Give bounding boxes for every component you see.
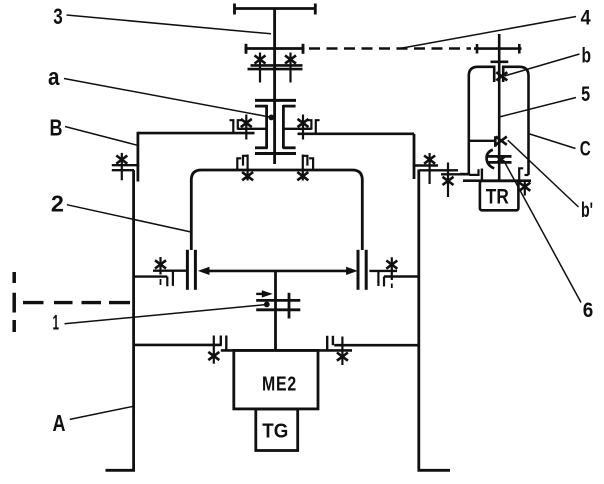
carrier clutch right hook 1 (309, 158, 313, 170)
axis dashed horizontal (23, 301, 130, 304)
svg-text:5: 5 (581, 83, 590, 106)
gear clutch asterisk right (285, 55, 296, 63)
right carrier clutch line A (369, 270, 397, 272)
motor mount right stem (341, 337, 343, 366)
shaft b (498, 34, 501, 181)
left wall bearing stem (121, 153, 123, 180)
carrier clutch right hook 2 (303, 156, 307, 166)
carrier clutch left hook 1 (237, 158, 241, 170)
TR mount left edge stub (460, 173, 469, 175)
differential side gear left (265, 105, 268, 149)
right carrier clutch stub 2 (377, 271, 379, 286)
gear mesh lower line (248, 68, 303, 71)
central shaft a (upper segment) (273, 9, 276, 165)
axis dashed vertical (12, 272, 16, 332)
left wall bearing line 2 (112, 169, 134, 171)
planet axle left arrowhead (198, 267, 210, 275)
shaft 4 bar right tick (302, 44, 305, 54)
carrier clutch asterisk right (297, 172, 308, 180)
left bearing stem (245, 115, 247, 140)
left carrier clutch line B (134, 275, 168, 277)
gear clutch asterisk left (255, 55, 266, 63)
TR housing C right half (503, 67, 528, 175)
carrier clutch left stem (247, 155, 249, 181)
motor mount line right upper (334, 344, 419, 347)
right carrier clutch stub 1 (383, 277, 385, 287)
svg-text:1: 1 (53, 312, 60, 335)
right bearing hook 2 (316, 120, 320, 134)
left planet roller bar outer (186, 250, 189, 290)
coupling 1 upper plate (256, 299, 300, 302)
svg-text:TG: TG (262, 421, 288, 443)
top bar left tick (233, 4, 236, 15)
left bearing line upper (238, 128, 266, 130)
bearing line to TR housing (441, 173, 470, 175)
svg-text:2: 2 (51, 191, 64, 217)
leader line C (529, 134, 576, 149)
TR input gear bar lower (488, 161, 512, 164)
leader line 6 (504, 161, 581, 303)
motor mount left stem (213, 336, 215, 364)
carrier clutch asterisk left (242, 172, 253, 180)
left bearing asterisk (241, 119, 252, 127)
right planet roller bar inner (357, 250, 360, 290)
TR input gear claw (487, 150, 495, 169)
motor mount asterisk right (337, 353, 348, 361)
leader line A (70, 406, 134, 419)
motor mount line lower (221, 349, 352, 352)
differential top bar (255, 99, 296, 102)
gear clutch stem right (289, 53, 291, 83)
TR mount left hook (469, 169, 478, 175)
planet axle line (207, 270, 348, 273)
right carrier clutch stem (391, 257, 393, 280)
differential upper stub left (255, 105, 268, 108)
shaft 4 bar left tick (245, 44, 248, 54)
carrier clutch right stem (302, 155, 304, 181)
motor ME2 box (234, 350, 318, 409)
leader line 5 (499, 98, 576, 118)
motor mount right hook 1 (326, 336, 328, 351)
transmission TR box (480, 181, 519, 210)
leader line 3 (67, 15, 272, 34)
leader line a (64, 79, 271, 118)
left bearing line to wall (138, 132, 255, 135)
right carrier clutch line B (384, 275, 419, 277)
right wall lower segment (417, 170, 420, 471)
svg-text:b': b' (581, 199, 593, 222)
right carrier clutch asterisk (386, 261, 397, 269)
left carrier clutch stem dash (160, 279, 162, 285)
differential lower stub left (255, 146, 268, 149)
coupling 1 lower plate (256, 308, 300, 311)
clutch b' feed line (469, 140, 495, 142)
leader line 1 (65, 305, 267, 324)
shaft b bar left tick (476, 44, 479, 54)
right wall bearing asterisk 1 (424, 156, 435, 164)
left wall lower segment (132, 170, 135, 470)
shaft 4 bar (245, 47, 305, 50)
TR mount right stem (524, 181, 526, 196)
right carrier clutch stem dash (391, 284, 393, 289)
motor mount right hook 2 (332, 336, 334, 345)
left wall bearing asterisk (116, 156, 127, 164)
shaft b bar (474, 47, 522, 50)
dot on coupling (1) (264, 302, 270, 308)
shaft b gear tick (491, 60, 509, 63)
left carrier clutch line A (153, 270, 187, 272)
left wall bearing line 1 (112, 164, 139, 166)
TR housing C left half (469, 67, 494, 174)
planet axle right arrowhead (346, 267, 358, 275)
right wall foot (418, 469, 451, 472)
right wall bearing line 1 (414, 164, 438, 166)
TR top mounting line (463, 179, 531, 182)
TR housing right edge serif (525, 174, 529, 176)
right bearing line upper (284, 128, 312, 130)
left carrier clutch stub 1 (166, 277, 168, 287)
leader line B (65, 127, 138, 146)
motor mount line left upper (134, 344, 222, 347)
motor mount left hook 2 (225, 336, 227, 351)
TR mount left vertical (481, 169, 483, 181)
right wall bearing stem 2 (447, 163, 449, 198)
left planet roller bar inner (194, 250, 197, 290)
left carrier clutch stem (159, 257, 161, 275)
TR mount asterisk (519, 183, 530, 191)
differential bottom bar (255, 152, 296, 155)
tachogenerator TG box (256, 409, 298, 451)
svg-text:4: 4 (581, 7, 591, 30)
differential upper stub right (283, 105, 296, 108)
coupling 1 arrowhead (262, 290, 273, 297)
leader line 2 (67, 205, 191, 232)
left bearing hook 1 (238, 120, 242, 129)
right wall upper segment (413, 134, 416, 179)
right bearing line to wall (298, 133, 415, 136)
svg-text:6: 6 (583, 299, 594, 322)
clutch b prime asterisk (496, 137, 507, 145)
svg-text:b: b (581, 45, 591, 68)
top bar right tick (314, 4, 317, 15)
right wall bearing stem 1 (429, 153, 431, 184)
svg-text:3: 3 (53, 4, 63, 29)
leader line 4 (401, 17, 576, 49)
leader line b (505, 54, 580, 76)
svg-text:A: A (53, 410, 66, 436)
planet carrier frame 2 (191, 170, 362, 250)
svg-text:a: a (48, 64, 60, 91)
shaft 3 top bar (234, 7, 317, 10)
TR mount right hook (519, 168, 523, 180)
shaft b bar right tick (518, 44, 521, 54)
svg-text:TR: TR (486, 186, 509, 209)
coupling 1 arrow line (256, 293, 263, 295)
coupling 1 side bar (288, 293, 291, 319)
TR input gear bar upper (488, 155, 512, 158)
leader line b prime (508, 140, 579, 207)
carrier clutch left hook 2 (243, 156, 247, 166)
right wall bearing asterisk 2 (443, 177, 454, 185)
gear mesh upper line (251, 64, 303, 67)
differential lower stub right (283, 146, 296, 149)
motor mount left hook 1 (220, 336, 222, 345)
left carrier clutch stub 2 (172, 271, 174, 286)
left wall upper segment (136, 132, 139, 182)
dashed axis line to 4 (309, 47, 471, 50)
clutch b' end bar (494, 136, 497, 147)
differential side gear right (282, 105, 285, 149)
clutch b asterisk (496, 72, 507, 80)
TR input clutch mark (498, 157, 505, 162)
svg-text:ME2: ME2 (262, 374, 297, 396)
right bearing stem (302, 115, 304, 140)
left carrier clutch asterisk (155, 260, 166, 268)
input shaft (lower segment) (274, 271, 277, 352)
gear clutch stem left (259, 53, 261, 83)
svg-text:B: B (50, 115, 63, 141)
left wall foot (106, 469, 136, 472)
motor mount asterisk left (208, 352, 219, 360)
right bearing hook 1 (307, 120, 311, 129)
right planet roller bar outer (365, 250, 368, 290)
right wall bearing line 2 (419, 169, 458, 171)
svg-text:C: C (580, 138, 591, 161)
left bearing hook 2 (230, 120, 234, 133)
right bearing asterisk (298, 119, 309, 127)
dot on differential (a) (268, 115, 274, 121)
